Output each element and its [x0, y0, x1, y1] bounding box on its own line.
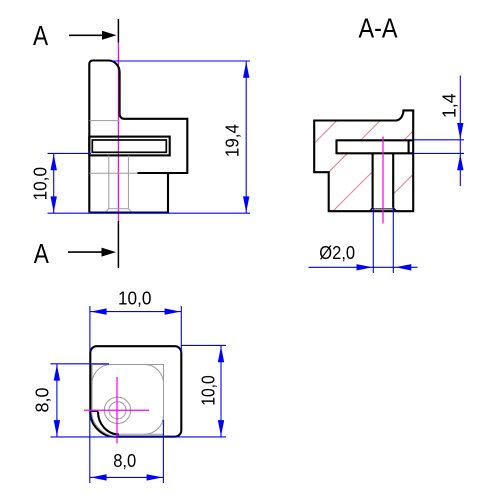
stem left	[372, 153, 374, 208]
dim 8,0 bottom line	[90, 476, 164, 478]
slot outer rect	[89, 137, 169, 156]
dim 10,0 right extensions	[182, 344, 227, 346]
dim 8,0 left line	[56, 364, 58, 437]
slot right end wall	[408, 140, 410, 153]
countersink chamfer right	[393, 208, 396, 211]
slot bottom line	[337, 152, 414, 154]
svg-text:A: A	[34, 238, 49, 269]
inner contour fillet TR (gray)	[145, 365, 164, 384]
dim 19,4 extension top	[111, 60, 251, 62]
slot top line	[337, 139, 414, 141]
svg-text:10,0: 10,0	[118, 289, 152, 309]
corner fillet edge arc (thick)	[98, 412, 119, 435]
dim Ø2,0 extensions	[372, 208, 374, 273]
center cross vertical (magenta)	[116, 377, 118, 444]
svg-text:10,0: 10,0	[31, 167, 51, 201]
dim 1,4 extensions	[414, 139, 464, 141]
bottom edge	[89, 212, 169, 214]
countersink chamfer left	[370, 208, 373, 211]
section line bottom tick	[117, 221, 119, 268]
svg-text:Ø2,0: Ø2,0	[319, 243, 355, 263]
section line top tick	[117, 19, 119, 43]
centerline (magenta)	[382, 137, 384, 224]
tangent line (arm top, gray)	[89, 120, 119, 122]
dim 10,0 right line	[220, 345, 222, 437]
dim 1,4 line	[459, 76, 461, 187]
svg-text:A: A	[33, 20, 48, 51]
corner fillet edge (thick) stub	[90, 410, 98, 412]
section plane centerline (magenta)	[117, 42, 119, 221]
inner contour fillet BR (gray)	[145, 415, 164, 434]
dim Ø2,0 line	[309, 266, 418, 268]
svg-text:1,4: 1,4	[439, 93, 459, 118]
svg-text:8,0: 8,0	[113, 451, 136, 471]
inner contour square (gray)	[92, 365, 164, 435]
hole chamfer (gray)	[106, 209, 131, 212]
section outline	[314, 110, 413, 211]
outer outline	[90, 346, 181, 437]
inner contour fillet BL big arc (gray)	[92, 410, 118, 436]
svg-text:10,0: 10,0	[198, 375, 218, 406]
dim 10,0 extension	[48, 152, 92, 154]
center cross horizontal (magenta)	[84, 409, 149, 411]
svg-text:8,0: 8,0	[33, 388, 53, 413]
countersink line	[374, 208, 393, 210]
svg-text:A-A: A-A	[358, 12, 397, 43]
block right edge	[167, 174, 169, 213]
bottom extension line	[48, 212, 251, 214]
dim 19,4 line	[245, 61, 247, 213]
dim 8,0 left extensions	[50, 363, 109, 365]
dim 8,0 bottom extensions	[89, 412, 91, 484]
dim 10,0 top line	[90, 311, 181, 313]
section arrow (top)	[69, 34, 104, 36]
stem right	[392, 153, 394, 208]
part outline (upper profile)	[89, 61, 187, 213]
inner contour fillet TL (gray)	[92, 365, 111, 384]
hidden hole left (gray)	[108, 156, 110, 209]
hatching (red)	[238, 100, 488, 220]
slot inner rect	[92, 140, 166, 152]
section arrow (bottom)	[68, 251, 104, 253]
boss circle outer (gray)	[104, 397, 130, 423]
dim 10,0 line	[53, 153, 55, 213]
tangent line (block top, gray)	[89, 172, 137, 174]
hidden hole right (gray)	[127, 156, 129, 209]
slot left wall	[335, 139, 337, 154]
dim 10,0 top extensions	[89, 306, 91, 351]
boss circle inner (gray)	[109, 402, 126, 419]
svg-text:19,4: 19,4	[222, 124, 242, 157]
